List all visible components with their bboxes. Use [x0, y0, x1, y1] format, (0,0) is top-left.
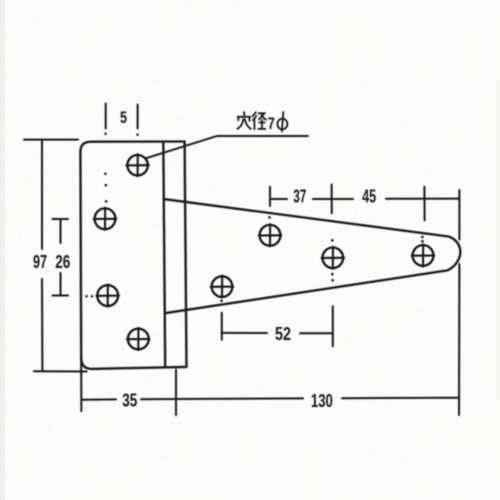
hole H8: [412, 244, 435, 266]
centerline dot (plate right column): [136, 133, 139, 136]
centerline dot above hole H6: [268, 216, 271, 219]
dimension 97: [24, 140, 87, 372]
scan edge artifact right: [496, 80, 500, 400]
label 穴径7φ : 径 drawn: [253, 112, 266, 129]
svg-text:5: 5: [120, 109, 127, 127]
svg-text:37: 37: [293, 187, 306, 207]
dimension 26: [53, 219, 69, 296]
leader line for hole label: [146, 136, 308, 158]
centerline dots (hole H3 horizontal): [85, 295, 88, 298]
tick at hole H6 centerline: [269, 187, 271, 206]
hole H5: [211, 276, 234, 298]
centerline dots hole H7: [331, 239, 334, 242]
scan edge artifact left: [0, 0, 5, 500]
tick at plate left edge: [80, 352, 82, 411]
right extension line (strap tip): [458, 190, 460, 415]
svg-text:130: 130: [311, 391, 333, 411]
svg-text:7: 7: [268, 114, 275, 133]
dimension 5 (top): [106, 104, 138, 129]
svg-text:52: 52: [275, 324, 291, 344]
tick at hole H7 centerline: [331, 184, 333, 213]
hole H4: [127, 328, 150, 350]
tick at knuckle centerline: [175, 370, 177, 415]
svg-text:97: 97: [33, 252, 47, 272]
label 穴径7φ : 穴 drawn: [237, 112, 250, 129]
svg-text:26: 26: [55, 252, 70, 272]
knuckle fold line: [163, 142, 165, 367]
hole H2: [94, 208, 117, 230]
plate right edge: [185, 142, 187, 367]
svg-text:45: 45: [362, 187, 376, 207]
hole H7: [322, 247, 345, 269]
hole H1: [126, 154, 149, 176]
strap outline (tapered arm with rounded tip): [164, 199, 461, 313]
dimension 37-45 line: [270, 184, 459, 220]
centerline dot below hole H5: [220, 299, 223, 302]
tick at hole H8 centerline: [423, 187, 425, 221]
centerline dots above hole H8: [421, 236, 424, 239]
label 穴径7φ : φ: [277, 112, 287, 132]
hole H3: [96, 285, 119, 307]
left plate outline: [80, 142, 186, 369]
bottom dimension line 35 / 130: [81, 352, 459, 415]
svg-text:35: 35: [122, 391, 137, 411]
centerline dots (plate left column): [85, 132, 424, 302]
hole H6: [259, 224, 282, 246]
dimension 52: [222, 306, 333, 346]
